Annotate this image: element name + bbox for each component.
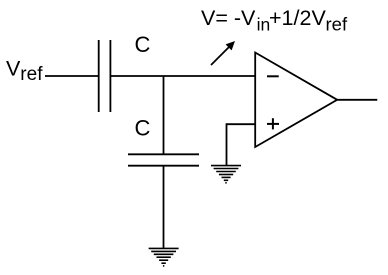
svg-text:V: V (6, 57, 21, 81)
wire op-amp noninverting input to ground (227, 124, 256, 165)
svg-text:ref: ref (20, 64, 43, 85)
op-amp inverting input minus sign (267, 75, 279, 77)
node label Vref (6, 57, 43, 85)
svg-text:C: C (135, 115, 151, 140)
op-amp U1 (255, 53, 337, 148)
wire C2 to ground (163, 166, 165, 249)
capacitor C2 value label C (135, 115, 151, 140)
arrow pointing to node voltage (211, 41, 235, 65)
svg-text:ref: ref (326, 14, 348, 35)
wire Vref to C1 (45, 75, 99, 77)
wire op-amp output (337, 99, 377, 101)
svg-text:V= -V: V= -V (201, 6, 256, 30)
node voltage label V= -Vin+1/2Vref (201, 6, 348, 34)
capacitor C1 (99, 40, 111, 112)
svg-text:+1/2V: +1/2V (269, 6, 326, 30)
ground at op-amp noninverting input (211, 166, 241, 183)
capacitor C1 value label C (135, 32, 151, 57)
op-amp noninverting input plus sign (267, 118, 279, 129)
wire C1 to op-amp inverting input (110, 75, 255, 77)
wire node down to C2 (163, 76, 165, 154)
svg-text:C: C (135, 32, 151, 57)
capacitor C2 (128, 154, 199, 165)
ground below C2 (149, 248, 179, 266)
